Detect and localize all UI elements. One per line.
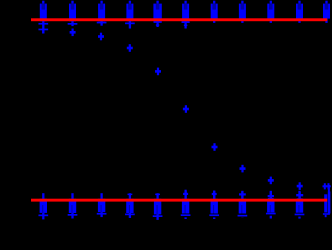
transition data point 1 at (72.6,32.3) <box>70 29 76 37</box>
top cluster 7 (errorbar bundle) at x=214.2 <box>211 1 218 23</box>
transition data point 3 at (129.8,48) <box>127 44 133 52</box>
above-bottom-line marker col 6 <box>183 190 188 199</box>
lower red reference line <box>31 199 327 202</box>
above-bottom-line marker col 7 <box>212 191 217 199</box>
transition data point 4 at (158,71.4) <box>155 68 161 76</box>
top cluster 4 (errorbar bundle) at x=129.9 <box>126 1 133 22</box>
transition data points pair at x=325/328 <box>323 183 331 189</box>
transition data point 2 at (101,36.5) <box>98 33 104 41</box>
transition data point 9 at (299.7,186.1) <box>297 182 303 190</box>
transition data point 7 at (242.5,168.6) <box>240 165 246 173</box>
top cluster 3 (errorbar bundle) at x=101.6 <box>98 1 105 22</box>
top cluster 6 (errorbar bundle) at x=185.6 <box>182 1 189 22</box>
below-line errorbars col 5 <box>154 21 162 27</box>
bottom cluster 6 (errorbar bundle) at x=185.6 <box>181 191 191 219</box>
bottom cluster 11 (errorbar bundle) at x=326.5 <box>323 185 331 217</box>
bottom cluster 9 (errorbar bundle) at x=270.8 <box>266 191 276 219</box>
below-line errorbars col 6 <box>182 21 190 29</box>
transition data point 5 at (185.9,109) <box>183 105 189 113</box>
above-bottom-line marker col 8 <box>239 191 246 198</box>
below-line errorbars col 2 <box>68 21 78 26</box>
bottom cluster 1 (errorbar bundle) at x=43.3 <box>38 193 48 219</box>
above-bottom-line marker col 10 <box>296 192 303 200</box>
transition data point 6 at (214.5,147) <box>212 143 218 151</box>
top cluster 2 (errorbar bundle) at x=72.5 <box>69 1 76 22</box>
bottom cluster 5 (errorbar bundle) at x=157.6 <box>153 193 163 220</box>
bottom cluster 4 (errorbar bundle) at x=129.9 <box>125 193 135 218</box>
above-bottom-line marker col 9 <box>268 192 274 200</box>
top cluster 8 (errorbar bundle) at x=242.4 <box>239 1 246 23</box>
top cluster 10 (errorbar bundle) at x=299.5 <box>296 1 303 23</box>
transition data point 8 at (270.8,180.4) <box>268 177 274 185</box>
bottom cluster 2 (errorbar bundle) at x=72.5 <box>68 193 78 218</box>
bottom cluster 8 (errorbar bundle) at x=242.4 <box>238 191 248 218</box>
top cluster 9 (errorbar bundle) at x=270.8 <box>267 1 274 23</box>
upper red reference line <box>31 18 327 21</box>
top cluster 1 (errorbar bundle) at x=43.3 <box>40 1 47 22</box>
top cluster 5 (errorbar bundle) at x=157.6 <box>153 1 161 22</box>
bottom cluster 3 (errorbar bundle) at x=101.6 <box>97 193 107 217</box>
bottom cluster 7 (errorbar bundle) at x=214.2 <box>209 191 219 219</box>
below-line errorbars col 1 <box>38 21 48 34</box>
top cluster 11 (errorbar bundle) at x=326.5 <box>323 1 330 23</box>
bottom cluster 10 (errorbar bundle) at x=299.5 <box>295 191 305 219</box>
below-line errorbars col 3 <box>97 21 107 26</box>
below-line errorbars col 4 <box>125 21 135 29</box>
